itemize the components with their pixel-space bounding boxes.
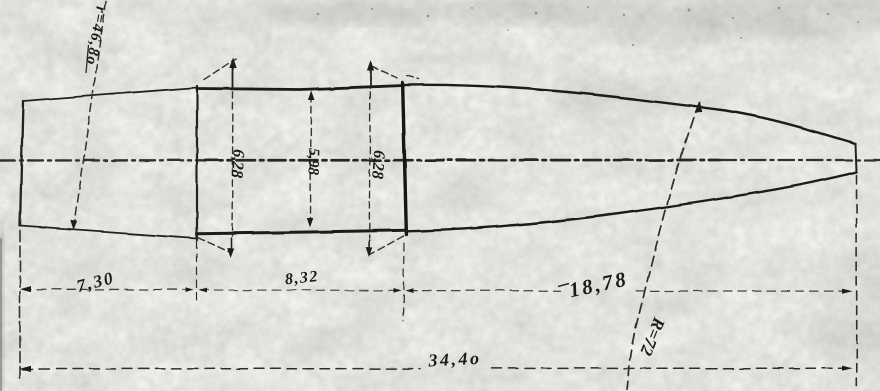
svg-text:8,32: 8,32 [284, 268, 320, 288]
svg-text:6,28: 6,28 [368, 150, 389, 180]
svg-text:6,28: 6,28 [228, 149, 249, 179]
svg-text:5,98: 5,98 [304, 148, 322, 176]
svg-text:34,4o: 34,4o [427, 348, 482, 371]
